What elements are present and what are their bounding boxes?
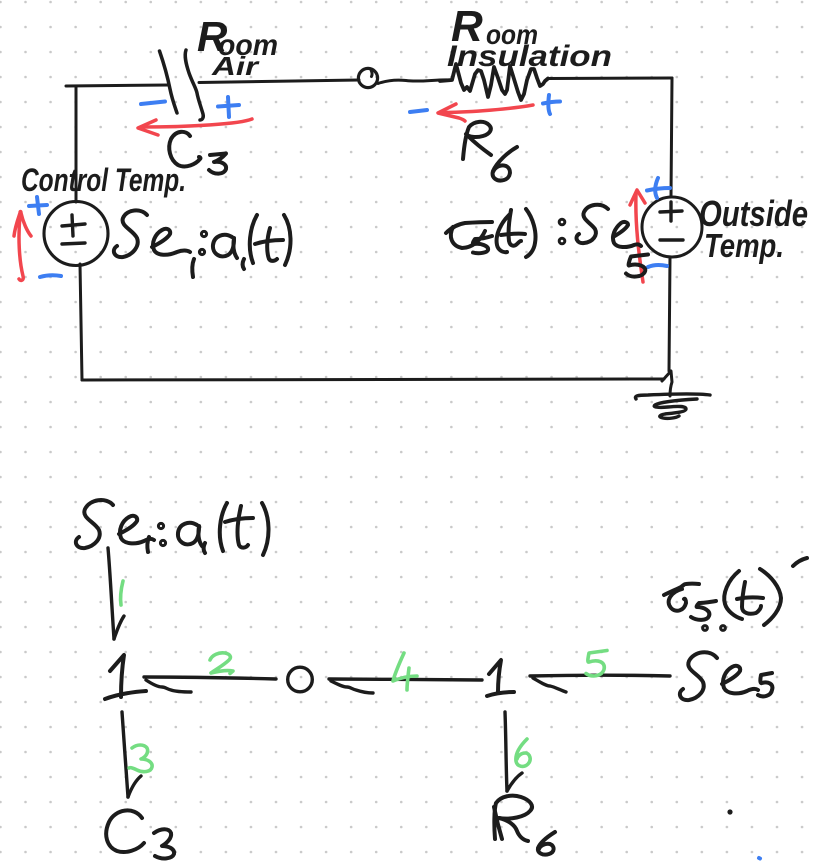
wire: left vertical lower xyxy=(80,264,82,380)
node 0 (bond graph junction) xyxy=(288,667,313,692)
blue plus (capacitor right) xyxy=(218,105,239,107)
stray blue dot bottom right xyxy=(759,856,760,861)
wire: bottom horizontal xyxy=(82,379,664,380)
ground symbol xyxy=(635,394,710,399)
red arrow (right source, pointing up) xyxy=(636,194,643,282)
blue minus (resistor left) xyxy=(410,110,427,112)
bond 4 (node 0 to node 1) xyxy=(329,679,482,680)
blue minus (right source) xyxy=(648,265,667,267)
svg-text:Temp.: Temp. xyxy=(704,227,784,264)
stray tick top-right of v5(t) xyxy=(793,558,807,566)
bond number 1 xyxy=(121,581,123,605)
label v5(t) : Se (top, beside right source) xyxy=(446,222,492,233)
resistor R6 zigzag xyxy=(440,64,548,100)
blue plus (right source, t-shaped) xyxy=(647,188,670,191)
node 1 (bond graph right junction) xyxy=(489,660,501,692)
label Se1 : a1(t) (bond graph left) xyxy=(76,500,113,548)
wire: resistor to top-right corner xyxy=(548,77,672,81)
blue minus (left source) xyxy=(40,275,61,277)
bond 1 (Se1 to node 1) xyxy=(108,548,114,639)
bond number 4 xyxy=(393,653,417,681)
stray black dot xyxy=(727,809,732,814)
red arrow (left source, pointing up) xyxy=(19,215,23,280)
wire: right vertical upper xyxy=(671,78,672,197)
svg-text:Insulation: Insulation xyxy=(447,40,612,73)
capacitor C3 (plates crossing top wire) xyxy=(160,51,178,113)
blue plus (left source) xyxy=(29,205,47,206)
label C3 (top, near capacitor) xyxy=(169,132,200,167)
bond number 6 xyxy=(516,739,530,766)
label R6 (bond graph bottom) xyxy=(494,796,532,839)
bond 3 (node 1 down to C3) xyxy=(122,712,128,797)
label C3 (bond graph bottom) xyxy=(106,810,144,852)
source Se1 circle (Control Temp) xyxy=(44,202,108,266)
wire: left vertical upper xyxy=(75,86,78,202)
junction hook bottom-right xyxy=(662,371,672,396)
node 0 circle on top wire xyxy=(358,68,377,87)
label Se1 : a1(t) (top, beside left source) xyxy=(114,210,147,257)
blue plus (resistor right) xyxy=(543,102,560,104)
svg-text:Air: Air xyxy=(211,51,261,81)
blue minus (capacitor left) xyxy=(141,102,165,105)
wire: top-middle segment to node xyxy=(199,80,359,83)
svg-text:Control Temp.: Control Temp. xyxy=(21,162,186,198)
red arrow (capacitor, pointing left) xyxy=(142,119,252,127)
wire: right vertical lower xyxy=(669,257,670,371)
label R6 (top, near resistor) xyxy=(463,122,491,159)
wire: node to resistor (wavy) xyxy=(378,80,451,84)
bond 5 (node 1 to Se5) xyxy=(530,674,670,678)
label v5(t) (bond graph right) xyxy=(664,584,699,595)
label Se5 (bond graph right) xyxy=(680,652,717,700)
wire: top-left horizontal segment xyxy=(66,85,169,86)
source Se5 circle (Outside Temp) xyxy=(642,197,702,257)
label 5 (subscript of Se5, right source) xyxy=(626,255,648,277)
bond number 5 xyxy=(586,651,607,676)
bond number 2 xyxy=(210,653,233,674)
red arrow (resistor, pointing left) xyxy=(441,105,533,113)
node 1 (bond graph left junction) xyxy=(110,655,124,697)
bond number 3 xyxy=(129,745,152,772)
bond 2 (node 1 to node 0) xyxy=(144,677,276,679)
bond 6 (node 1 down to R6) xyxy=(505,712,507,791)
